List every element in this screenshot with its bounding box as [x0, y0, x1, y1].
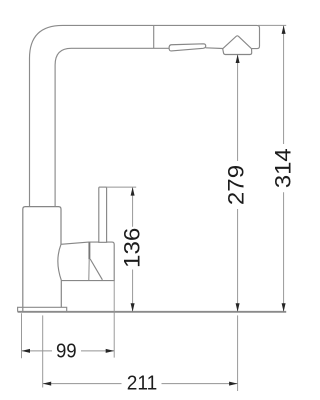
arrow 211 right	[229, 382, 238, 386]
arrow 314 top	[282, 25, 286, 34]
arrow 136 bottom	[131, 303, 135, 312]
handle divider bar	[88, 242, 90, 259]
dimension line 211	[43, 383, 238, 385]
svg-text:211: 211	[127, 373, 158, 395]
handle divider diagonal	[90, 259, 102, 280]
arrow 99 right	[106, 349, 115, 353]
arrow 99 left	[22, 349, 31, 353]
spout inner curve line	[55, 48, 169, 206]
extension line: top right (to 314 dim)	[258, 24, 286, 26]
svg-text:314: 314	[270, 148, 295, 188]
dimension line 99	[22, 350, 115, 352]
handle divider left edge	[88, 259, 90, 280]
spray head pentagon	[223, 36, 252, 55]
dimension line 279	[237, 55, 239, 311]
svg-text:99: 99	[56, 341, 77, 363]
arrow 136 top	[131, 187, 135, 196]
wire: line from lever to spray head	[206, 47, 223, 50]
handle lever rod	[99, 187, 107, 242]
extension line: housing right edge down (99 dim)	[113, 281, 115, 358]
dimension line 136	[132, 188, 134, 312]
arrow 279 bottom	[236, 303, 240, 312]
arrow 314 bottom	[282, 303, 286, 312]
faucet body column	[23, 207, 62, 312]
svg-text:279: 279	[224, 165, 249, 205]
extension line: below surface left (99 dim)	[21, 313, 23, 358]
arrow 211 left	[43, 382, 52, 386]
svg-text:136: 136	[120, 228, 145, 268]
lever tab on spout	[169, 44, 206, 51]
countertop surface line	[18, 311, 287, 313]
dimension line 314	[283, 26, 285, 311]
extension line: body axis (211 dim)	[42, 315, 44, 387]
handle assembly housing	[58, 242, 114, 281]
base plate	[18, 307, 67, 312]
spout outer outline and pipe end	[30, 25, 260, 206]
extension line: rod top (136 dim)	[99, 186, 136, 188]
extension line: spray outlet axis (211 dim)	[237, 315, 239, 391]
arrow 279 top	[236, 55, 240, 64]
spout joint line	[153, 26, 155, 48]
